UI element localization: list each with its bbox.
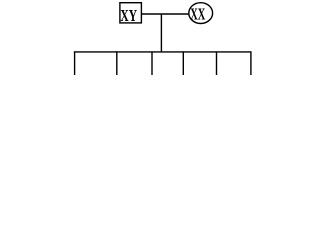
svg-text:XX: XX bbox=[190, 4, 205, 23]
sibship line bbox=[74, 51, 252, 53]
father square XY bbox=[120, 3, 141, 23]
descent line bbox=[160, 14, 162, 52]
marriage line bbox=[141, 13, 189, 15]
child drop 5 bbox=[216, 51, 218, 75]
child drop 3 bbox=[151, 51, 153, 75]
child drop 2 bbox=[116, 51, 118, 75]
child drop 4 bbox=[182, 51, 184, 75]
child drop 1 bbox=[74, 51, 76, 75]
svg-text:XY: XY bbox=[120, 6, 137, 25]
child drop 6 bbox=[250, 51, 252, 75]
mother circle XX bbox=[189, 3, 213, 24]
